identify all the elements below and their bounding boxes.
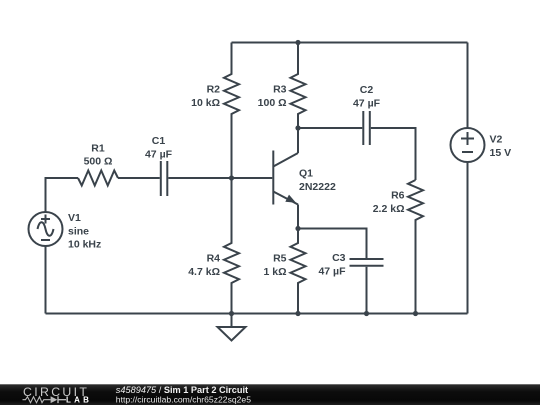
wire V1 to bottom rail	[45, 246, 47, 314]
label R3 100 Ohm	[258, 84, 287, 109]
wire base	[232, 177, 273, 179]
node C3 bottom junction	[364, 311, 369, 316]
svg-text:C3: C3	[332, 252, 346, 264]
label C3 47 uF	[318, 252, 346, 277]
svg-text:47 µF: 47 µF	[318, 265, 346, 277]
resistor R1	[78, 171, 118, 186]
node emitter junction	[295, 226, 300, 231]
svg-text:V1: V1	[68, 212, 81, 224]
capacitor C3	[350, 259, 384, 266]
wire collector	[297, 128, 299, 153]
svg-text:s4589475 / Sim 1 Part 2 Circui: s4589475 / Sim 1 Part 2 Circuit	[116, 385, 248, 395]
label R5 1 kOhm	[263, 253, 286, 278]
label V2 15 V	[490, 134, 512, 159]
svg-text:2N2222: 2N2222	[299, 181, 336, 193]
label C2 47 uF	[353, 84, 381, 109]
resistor R3	[291, 43, 306, 129]
svg-text:Q1: Q1	[299, 168, 313, 180]
label R6 2.2 kOhm	[373, 190, 405, 215]
svg-text:10 kHz: 10 kHz	[68, 239, 101, 251]
svg-text:R4: R4	[207, 253, 221, 265]
wire bottom rail	[46, 313, 468, 315]
svg-text:http://circuitlab.com/chr65z22: http://circuitlab.com/chr65z22sq2e5	[116, 394, 251, 404]
svg-text:R2: R2	[207, 84, 221, 96]
label V1 sine 10 kHz	[68, 212, 101, 251]
label R1 500 Ohm	[84, 142, 113, 167]
capacitor C1	[161, 161, 168, 196]
label R4 4.7 kOhm	[188, 253, 220, 278]
capacitor C2	[363, 111, 370, 145]
wire V2 to bottom rail	[467, 162, 469, 314]
svg-text:500 Ω: 500 Ω	[84, 156, 113, 168]
wire C2 to R6	[371, 128, 416, 180]
node R3 top junction	[295, 40, 300, 45]
wire emitter node to C3	[298, 229, 367, 259]
svg-text:1 kΩ: 1 kΩ	[263, 266, 286, 278]
svg-text:15 V: 15 V	[490, 147, 512, 159]
svg-text:4.7 kΩ: 4.7 kΩ	[188, 266, 220, 278]
wire V1 to R1	[46, 178, 79, 212]
svg-text:C2: C2	[360, 84, 374, 96]
resistor R4	[224, 178, 239, 314]
svg-text:47 µF: 47 µF	[353, 97, 381, 109]
node collector junction	[295, 125, 300, 130]
node R6 bottom junction	[413, 311, 418, 316]
label R2 10 kOhm	[191, 84, 220, 109]
attribution text	[116, 385, 251, 405]
svg-text:100 Ω: 100 Ω	[258, 97, 287, 109]
node R5 bottom junction	[295, 311, 300, 316]
svg-text:47 µF: 47 µF	[145, 148, 173, 160]
wire emitter	[297, 205, 299, 229]
wire top rail	[232, 42, 468, 44]
label Q1 2N2222	[299, 168, 336, 193]
svg-text:sine: sine	[68, 225, 89, 237]
transistor Q1	[273, 151, 298, 205]
wire collector node to C2	[298, 127, 362, 129]
wire R1 to C1	[118, 177, 160, 179]
ground	[218, 314, 246, 341]
svg-text:V2: V2	[490, 134, 503, 146]
svg-text:2.2 kΩ: 2.2 kΩ	[373, 203, 405, 215]
wire C1 to base node	[168, 177, 231, 179]
node base junction	[229, 175, 234, 180]
svg-text:R1: R1	[91, 142, 105, 154]
wire C3 to bottom rail	[366, 267, 368, 314]
resistor R2	[224, 43, 239, 179]
svg-text:10 kΩ: 10 kΩ	[191, 97, 220, 109]
voltage source V2	[451, 128, 485, 162]
svg-text:C1: C1	[152, 135, 166, 147]
svg-text:R6: R6	[391, 190, 405, 202]
CircuitLab logo	[23, 385, 90, 404]
resistor R5	[291, 229, 306, 314]
resistor R6	[408, 180, 423, 314]
label C1 47 uF	[145, 135, 173, 160]
svg-text:R3: R3	[273, 84, 287, 96]
wire top rail to V2	[467, 43, 469, 129]
svg-text:LAB: LAB	[66, 396, 90, 405]
node ground junction	[229, 311, 234, 316]
voltage source V1	[29, 212, 63, 246]
svg-text:R5: R5	[273, 253, 287, 265]
